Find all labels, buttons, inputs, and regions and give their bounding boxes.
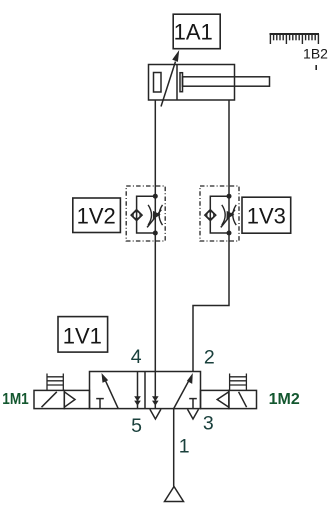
valve 1V1 left position: blocked port 5 <box>96 399 104 409</box>
svg-text:1M2: 1M2 <box>269 391 300 408</box>
solenoid 1M1 pilot section <box>64 390 89 408</box>
1B2 position marker <box>315 65 317 70</box>
svg-text:2: 2 <box>204 346 215 368</box>
valve 1V1 left position: flow path 2 to 3 <box>134 372 141 409</box>
wire 1V2 to valve port 4 <box>154 233 156 372</box>
exhaust marker port 5 <box>150 409 161 419</box>
cylinder 1A1 <box>149 65 270 101</box>
wire 1V3 to valve port 2 <box>193 233 229 372</box>
valve 1V1 right position: blocked port 3 <box>189 399 197 409</box>
label 1A1 <box>173 14 220 49</box>
wire valve port 1 to exhaust silencer <box>173 409 175 487</box>
svg-text:3: 3 <box>203 413 214 435</box>
displacement encoder ruler 1B2 <box>270 34 320 44</box>
svg-text:4: 4 <box>131 346 142 368</box>
svg-text:1V2: 1V2 <box>77 203 116 228</box>
label 1V1 <box>58 317 108 353</box>
valve 1V1 right position: flow path 4 to 5 (line continues from port 4) <box>152 372 159 409</box>
exhaust silencer triangle <box>165 487 184 502</box>
solenoid 1M2 coil box <box>229 390 257 408</box>
svg-text:5: 5 <box>131 415 142 437</box>
solenoid 1M1 spring/amplifier symbol <box>47 374 63 391</box>
label 1V2 <box>73 198 121 233</box>
label 1V3 <box>242 197 291 233</box>
valve 1V1 body <box>90 372 201 409</box>
one-way flow control valve 1V2 <box>126 186 165 241</box>
svg-text:1A1: 1A1 <box>174 20 213 45</box>
valve 1V1 right position: flow path 1 to 2 <box>174 373 193 409</box>
svg-text:1B2: 1B2 <box>303 45 328 61</box>
svg-text:1: 1 <box>179 435 190 457</box>
exhaust marker port 3 <box>188 409 199 419</box>
leader arrow from cylinder to label 1A1 <box>161 50 179 107</box>
wire cylinder left port to 1V2 <box>154 100 156 196</box>
svg-text:1V3: 1V3 <box>247 203 286 228</box>
svg-text:1V1: 1V1 <box>63 323 102 348</box>
solenoid 1M1 coil box <box>34 390 64 408</box>
valve 1V1 left position: flow path 1 to 4 <box>102 373 119 409</box>
solenoid 1M2 pilot section <box>201 390 229 408</box>
one-way flow control valve 1V3 <box>200 186 239 241</box>
wire cylinder right port to 1V3 <box>228 100 230 196</box>
svg-text:1M1: 1M1 <box>2 391 29 408</box>
solenoid 1M2 spring/amplifier symbol <box>230 374 247 391</box>
